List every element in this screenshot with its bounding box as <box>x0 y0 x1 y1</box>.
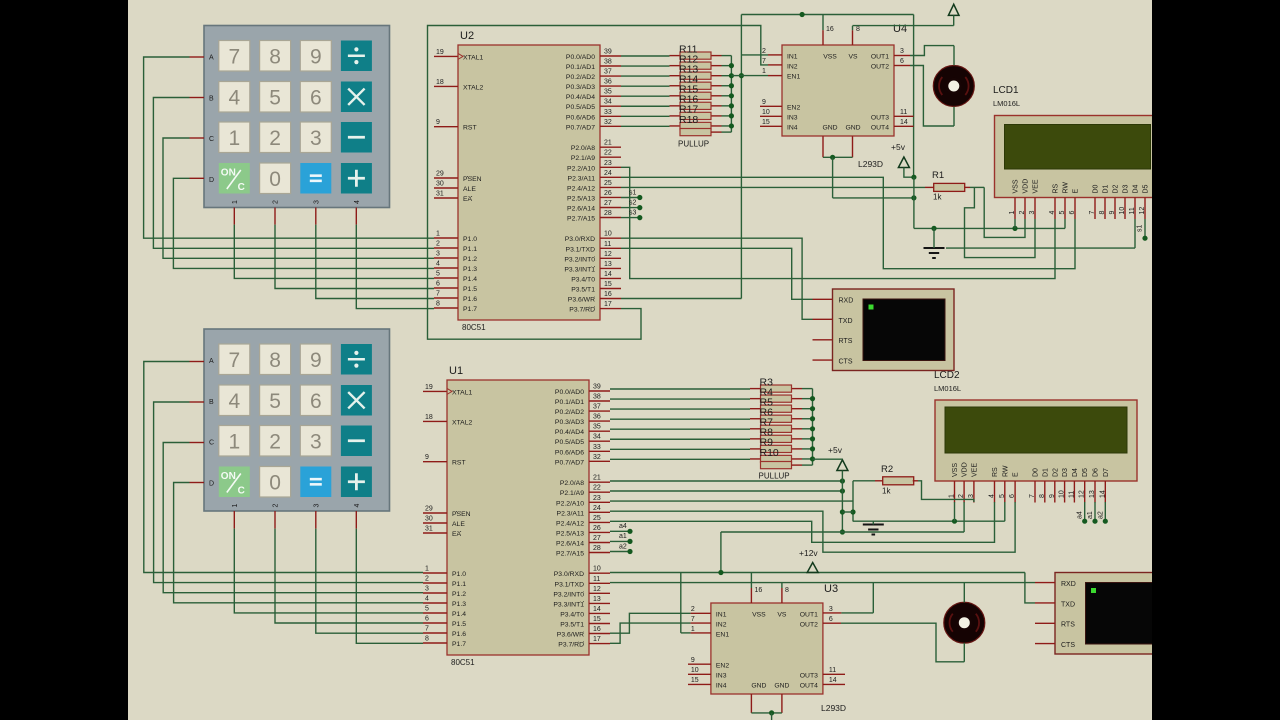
keypad KP2 button 0 <box>260 467 291 498</box>
resistor R17 <box>670 104 722 120</box>
U2 pin 12 P3.2/INT0 stub <box>564 251 621 263</box>
svg-text:39: 39 <box>604 49 612 56</box>
motor driver U4 L293D body <box>782 45 894 136</box>
svg-text:9: 9 <box>310 45 322 68</box>
svg-text:P1.1: P1.1 <box>463 246 477 253</box>
wire U2 P0.0 to resistor R11 <box>621 55 670 57</box>
svg-text:XTAL1: XTAL1 <box>463 54 483 61</box>
U1 pin 5 P1.4 stub <box>423 606 466 619</box>
svg-text:2: 2 <box>691 606 695 613</box>
resistor R13 <box>670 64 722 80</box>
U1 pin 26 P2.5/A13 stub <box>556 525 610 538</box>
svg-text:1: 1 <box>232 200 239 204</box>
wire keypad1 column 3 to U2 P1.6 <box>316 208 434 299</box>
U3 pin 3 OUT1 label <box>800 606 833 619</box>
U1 pin 30 ALE stub <box>423 516 465 529</box>
svg-text:IN3: IN3 <box>716 672 727 679</box>
LCD2 pin 14 D7 <box>1099 468 1110 503</box>
svg-text:RTS: RTS <box>839 338 853 345</box>
wire U3 left stub <box>688 673 711 675</box>
svg-text:GND: GND <box>822 125 837 132</box>
svg-text:P1.2: P1.2 <box>463 256 477 263</box>
svg-text:6: 6 <box>310 390 322 413</box>
wire R2 left vertical <box>842 481 882 521</box>
svg-text:4: 4 <box>436 261 440 268</box>
U4 pin 10 IN3 label <box>762 109 798 122</box>
svg-text:+5v: +5v <box>828 445 843 455</box>
svg-text:IN1: IN1 <box>787 54 798 61</box>
U4 pin 1 EN1 label <box>762 68 800 81</box>
svg-text:P3.7/RD: P3.7/RD <box>569 307 595 314</box>
U1 pin 9 RST stub <box>423 454 466 467</box>
svg-text:P2.5/A13: P2.5/A13 <box>556 530 584 537</box>
resistor pack common element <box>761 462 813 469</box>
wire +5v2 stem <box>840 471 845 535</box>
resistor pack common junction wire <box>722 56 735 133</box>
LCD2 screen <box>945 407 1127 453</box>
svg-text:14: 14 <box>593 606 601 613</box>
svg-text:D0: D0 <box>1093 184 1100 193</box>
LCD1 pin 8 D1 <box>1099 184 1110 219</box>
VT2 screen <box>1086 583 1167 645</box>
LCD display LCD2 LM016L body <box>935 400 1137 481</box>
svg-text:P1.1: P1.1 <box>452 581 466 588</box>
U2 pin 30 ALE stub <box>434 181 476 194</box>
wire keypad1 column 2 to U2 P1.5 <box>275 208 434 289</box>
svg-text:EN2: EN2 <box>716 662 729 669</box>
svg-text:D2: D2 <box>1113 184 1120 193</box>
svg-text:CTS: CTS <box>1061 642 1075 649</box>
keypad KP1 ON/C button <box>219 163 250 194</box>
wire +12v line to LCD2 VDD <box>721 502 964 573</box>
U1 pin 34 P0.5/AD5 stub <box>555 434 610 447</box>
svg-text:IN2: IN2 <box>716 622 727 629</box>
LCD2 pin 3 VEE <box>968 463 979 503</box>
wire U1 P2.1/A9 to +5v rail <box>610 488 845 493</box>
U2 pin 19 XTAL1 stub <box>434 49 483 62</box>
svg-text:32: 32 <box>593 454 601 461</box>
wire U2 P3.7/RD loop to U4 IN2 <box>428 26 783 340</box>
svg-text:P0.4/AD4: P0.4/AD4 <box>555 429 584 436</box>
svg-text:D4: D4 <box>1133 184 1140 193</box>
wire U2 P3.6/WR to U4 EN1 and +5V top rail <box>621 15 782 299</box>
svg-text:P0.6/AD6: P0.6/AD6 <box>555 449 584 456</box>
VT1 screen <box>863 299 945 361</box>
svg-text:LCD2: LCD2 <box>934 370 960 381</box>
resistor pack common element <box>680 129 731 136</box>
U2 pin 38 P0.1/AD1 stub <box>566 59 621 72</box>
svg-text:19: 19 <box>436 49 444 56</box>
motor MOTOR2 <box>944 602 985 643</box>
U3 pin 9 EN2 label <box>691 657 729 670</box>
wire U1 P2.0/A8 to +5v rail <box>610 478 845 483</box>
svg-text:1: 1 <box>1009 211 1016 215</box>
LCD2 pin 13 D6 <box>1089 468 1100 503</box>
svg-text:15: 15 <box>604 281 612 288</box>
svg-text:P2.5/A13: P2.5/A13 <box>567 195 595 202</box>
U2 pin 8 P1.7 stub <box>434 301 477 314</box>
wire U4 VS riser <box>853 26 954 45</box>
svg-text:18: 18 <box>425 414 433 421</box>
wire keypad2 row A to U1 P1.0 <box>144 362 423 573</box>
power symbol +5v <box>891 142 909 168</box>
svg-text:IN3: IN3 <box>787 114 798 121</box>
wire U2 P0.7 to resistor R18 <box>621 125 670 127</box>
svg-text:a1: a1 <box>1087 511 1094 519</box>
svg-text:LM016L: LM016L <box>993 99 1020 108</box>
svg-text:a2: a2 <box>1097 511 1104 519</box>
svg-text:5: 5 <box>436 271 440 278</box>
wire U1 P2.4/A12 to LCD2 RS <box>610 502 995 542</box>
wire ground2 stem <box>872 521 874 524</box>
svg-text:27: 27 <box>593 535 601 542</box>
U1 pin 10 P3.0/RXD stub <box>554 566 610 579</box>
svg-text:VDD: VDD <box>962 462 969 477</box>
svg-text:7: 7 <box>762 58 766 65</box>
U1 pin 24 P2.3/A11 stub <box>557 505 610 518</box>
U3 pin 15 IN4 label <box>691 677 727 690</box>
svg-text:3: 3 <box>1029 211 1036 215</box>
U2 pin 17 P3.7/RD stub <box>569 301 621 314</box>
svg-text:P2.3/A11: P2.3/A11 <box>568 175 596 182</box>
svg-text:7: 7 <box>228 349 240 372</box>
svg-text:P3.4/T0: P3.4/T0 <box>571 276 595 283</box>
U4 pin 15 IN4 label <box>762 119 798 132</box>
U2 pin 37 P0.2/AD2 stub <box>566 69 621 82</box>
svg-text:31: 31 <box>436 191 444 198</box>
node a2 at U1 pin 28 <box>610 543 633 554</box>
resistor R8 <box>750 427 802 443</box>
U1 pin 36 P0.3/AD3 stub <box>555 414 610 427</box>
LCD1 pin 12 D5 <box>1139 184 1150 219</box>
resistor R10 <box>750 447 802 463</box>
keypad KP1 button 2 <box>260 122 291 153</box>
svg-text:GND: GND <box>751 683 766 690</box>
svg-text:VDD: VDD <box>1023 179 1030 194</box>
svg-text:s1: s1 <box>1137 225 1144 233</box>
svg-text:29: 29 <box>425 506 433 513</box>
svg-text:2: 2 <box>436 241 440 248</box>
svg-text:4: 4 <box>354 200 361 204</box>
resistor R11 <box>670 43 722 59</box>
wire U3 VSS riser <box>751 573 762 604</box>
svg-text:17: 17 <box>593 636 601 643</box>
U4 VSS VS GND GND labels <box>822 54 860 132</box>
wire U4 left stub <box>760 115 782 117</box>
svg-text:OUT3: OUT3 <box>800 672 818 679</box>
svg-text:9: 9 <box>425 454 429 461</box>
LCD2 pin 4 RS <box>989 467 1000 503</box>
svg-text:R2: R2 <box>881 464 893 475</box>
svg-text:XTAL2: XTAL2 <box>452 419 472 426</box>
node a2 at LCD2 pin 14 <box>1097 502 1108 524</box>
svg-text:P3.5/T1: P3.5/T1 <box>571 287 595 294</box>
keypad KP1 body <box>204 26 390 208</box>
svg-text:U3: U3 <box>824 583 838 595</box>
svg-text:32: 32 <box>604 119 612 126</box>
wire U1 P3.6/WR to U3 IN1 <box>610 613 711 633</box>
wire U4 left stub <box>760 125 782 127</box>
svg-text:3: 3 <box>310 127 322 150</box>
svg-text:5: 5 <box>425 606 429 613</box>
svg-text:10: 10 <box>691 667 699 674</box>
keypad KP1 button 9 <box>300 41 331 72</box>
wire U3 OUT1 riser <box>823 583 873 613</box>
svg-text:RS: RS <box>992 467 999 477</box>
svg-text:6: 6 <box>1009 494 1016 498</box>
svg-text:OUT2: OUT2 <box>800 622 818 629</box>
svg-text:8: 8 <box>856 26 860 33</box>
keypad KP1 button 1 <box>219 122 250 153</box>
microcontroller U1 80C51 body <box>447 380 589 655</box>
svg-text:XTAL1: XTAL1 <box>452 389 472 396</box>
U1 pin 3 P1.2 stub <box>423 586 466 599</box>
node s2 at U2 pin 27 <box>621 199 642 210</box>
svg-text:ALE: ALE <box>452 521 465 528</box>
svg-text:36: 36 <box>593 414 601 421</box>
svg-text:10: 10 <box>762 109 770 116</box>
svg-text:OUT4: OUT4 <box>800 682 818 689</box>
svg-text:80C51: 80C51 <box>451 658 475 667</box>
svg-text:VS: VS <box>848 54 858 61</box>
svg-text:P1.0: P1.0 <box>452 571 466 578</box>
U4 pin 7 IN2 label <box>762 58 798 71</box>
svg-text:R1: R1 <box>932 170 944 181</box>
keypad KP1 operator button row 0 <box>341 41 372 72</box>
wire R1 right to LCD1 VDD and VEE <box>965 187 1036 257</box>
wire R2 right to LCD2 VEE <box>913 481 974 502</box>
svg-text:P3.5/T1: P3.5/T1 <box>560 622 584 629</box>
U1 pin 6 P1.5 stub <box>423 616 466 629</box>
U2 pin 23 P2.2/A10 stub <box>567 160 621 173</box>
svg-text:11: 11 <box>829 667 836 674</box>
wire U3 left stub <box>688 663 711 665</box>
svg-text:P0.3/AD3: P0.3/AD3 <box>555 419 584 426</box>
keypad KP2 button 6 <box>300 385 331 416</box>
LCD2 pin 9 D2 <box>1049 468 1060 503</box>
U2 pin 39 P0.0/AD0 stub <box>566 49 621 62</box>
svg-text:28: 28 <box>593 545 601 552</box>
svg-text:B: B <box>209 96 214 103</box>
wire U2 P3.0/RXD to VT1 TXD <box>621 238 833 319</box>
U1 pin 22 P2.1/A9 stub <box>560 485 610 498</box>
U1 pin 8 P1.7 stub <box>423 636 466 649</box>
svg-text:6: 6 <box>1069 211 1076 215</box>
wire U4 OUT3 stub <box>894 115 914 117</box>
svg-text:IN1: IN1 <box>716 612 727 619</box>
wire VT2 RTS stub <box>1035 622 1055 624</box>
svg-text:P0.7/AD7: P0.7/AD7 <box>555 459 584 466</box>
keypad KP1 operator button row 1 <box>341 82 372 113</box>
svg-text:26: 26 <box>593 525 601 532</box>
U2 pin 1 P1.0 stub <box>434 231 477 244</box>
svg-text:P0.3/AD3: P0.3/AD3 <box>566 84 595 91</box>
wire U2 P2.4/A12 to R1 left <box>621 186 934 188</box>
U2 pin 13 P3.3/INT1 stub <box>564 261 621 274</box>
LCD1 pin 9 D2 <box>1109 184 1120 219</box>
resistor R16 <box>670 94 722 110</box>
svg-text:OUT2: OUT2 <box>871 64 889 71</box>
wire U1 P0.6 to resistor R9 <box>610 448 750 450</box>
wire keypad2 row B to U1 P1.1 <box>154 402 423 583</box>
svg-text:D2: D2 <box>1052 468 1059 477</box>
svg-text:31: 31 <box>425 526 433 533</box>
svg-text:P2.2/A10: P2.2/A10 <box>556 500 584 507</box>
U1 pin 7 P1.6 stub <box>423 626 466 639</box>
svg-text:P2.7/A15: P2.7/A15 <box>567 216 595 223</box>
U3 pin 7 IN2 label <box>691 616 727 629</box>
U4 pin 14 OUT4 label <box>871 119 908 132</box>
resistor R5 <box>750 397 802 413</box>
svg-text:XTAL2: XTAL2 <box>463 84 483 91</box>
svg-text:27: 27 <box>604 200 612 207</box>
svg-text:RXD: RXD <box>1061 581 1076 588</box>
node s1 at LCD1 D5 <box>1137 219 1148 241</box>
svg-text:6: 6 <box>436 281 440 288</box>
svg-text:16: 16 <box>755 587 763 594</box>
wire U1 P0.4 to resistor R7 <box>610 428 750 430</box>
svg-text:L293D: L293D <box>821 703 846 713</box>
U2 pin 7 P1.6 stub <box>434 291 477 304</box>
U2 pin 35 P0.4/AD4 stub <box>566 89 621 102</box>
svg-text:1k: 1k <box>933 193 942 202</box>
U1 pin 17 P3.7/RD stub <box>558 636 610 649</box>
svg-text:5: 5 <box>999 494 1006 498</box>
svg-text:3: 3 <box>313 503 320 507</box>
U1 pin 2 P1.1 stub <box>423 576 466 589</box>
U1 pin 29 PSEN stub <box>423 506 471 519</box>
svg-text:VSS: VSS <box>952 463 959 477</box>
svg-text:35: 35 <box>593 424 601 431</box>
svg-text:9: 9 <box>436 119 440 126</box>
svg-text:P1.4: P1.4 <box>463 276 477 283</box>
svg-text:OUT4: OUT4 <box>871 124 889 131</box>
resistor R7 <box>750 417 802 433</box>
svg-text:a2: a2 <box>619 543 627 550</box>
svg-text:P3.3/INT1: P3.3/INT1 <box>564 266 595 273</box>
svg-text:11: 11 <box>1068 491 1075 498</box>
svg-text:P0.1/AD1: P0.1/AD1 <box>566 64 595 71</box>
keypad KP1 equals button <box>300 163 331 194</box>
svg-text:16: 16 <box>604 291 612 298</box>
wire U1 P0.3 to resistor R6 <box>610 418 750 420</box>
keypad KP2 button 5 <box>260 385 291 416</box>
svg-text:VEE: VEE <box>1033 179 1040 193</box>
svg-text:P1.7: P1.7 <box>452 641 466 648</box>
U1 pin 12 P3.2/INT0 stub <box>553 586 610 599</box>
LCD2 pin 11 D4 <box>1068 468 1079 503</box>
power symbol +5v <box>828 445 848 471</box>
svg-text:L293D: L293D <box>858 159 883 169</box>
U2 pin 5 P1.4 stub <box>434 271 477 284</box>
keypad KP2 button 7 <box>219 344 250 375</box>
node a1 at LCD2 pin 13 <box>1087 502 1098 524</box>
wire U3 VS riser <box>782 583 789 603</box>
svg-text:39: 39 <box>593 384 601 391</box>
svg-text:10: 10 <box>593 566 601 573</box>
U3 pin 14 OUT4 label <box>800 677 837 690</box>
U1 pin 16 P3.6/WR stub <box>557 626 610 639</box>
wire U1 P0.2 to resistor R5 <box>610 408 750 410</box>
svg-text:D1: D1 <box>1103 184 1110 193</box>
svg-text:7: 7 <box>691 616 695 623</box>
wire U2 P3.1/TXD to VT1 RXD <box>621 248 833 299</box>
svg-text:U4: U4 <box>893 23 907 35</box>
svg-text:28: 28 <box>604 210 612 217</box>
wire +5v to R1 rail <box>904 168 1065 231</box>
U1 pin 4 P1.3 stub <box>423 596 466 609</box>
LCD2 pin 5 RW <box>999 465 1010 502</box>
svg-text:P3.2/INT0: P3.2/INT0 <box>564 256 595 263</box>
wire U2 P0.2 to resistor R13 <box>621 75 670 77</box>
node a4 at LCD2 pin 12 <box>1077 502 1088 524</box>
keypad KP1 button 7 <box>219 41 250 72</box>
U2 pin 25 P2.4/A12 stub <box>567 180 621 193</box>
svg-text:4: 4 <box>1049 211 1056 215</box>
wire VT1 RTS stub <box>813 339 833 341</box>
svg-text:0: 0 <box>269 471 281 494</box>
wire U3 OUT2 to motor2 <box>823 623 964 662</box>
svg-text:10: 10 <box>604 231 612 238</box>
wire U1 P0.0 to resistor R3 <box>610 388 750 390</box>
wire VT1 CTS stub <box>813 359 833 361</box>
LCD2 pin 8 D1 <box>1039 468 1050 503</box>
wire keypad2 column 2 to U1 P1.5 <box>275 511 423 623</box>
wire U1 P3.7/RD to U3 IN2 <box>610 623 711 643</box>
svg-text:D5: D5 <box>1082 468 1089 477</box>
svg-text:14: 14 <box>900 119 908 126</box>
keypad KP2 operator button row 3 <box>341 467 372 498</box>
LCD1 pin 4 RS <box>1049 183 1060 219</box>
svg-text:P0.5/AD5: P0.5/AD5 <box>566 104 595 111</box>
svg-text:P1.5: P1.5 <box>463 286 477 293</box>
keypad KP1 button 4 <box>219 82 250 113</box>
wire R10 common to +5v2 <box>813 458 843 460</box>
U3 pin 2 IN1 label <box>691 606 727 619</box>
keypad KP2 button 2 <box>260 426 291 457</box>
U2 pin 32 P0.7/AD7 stub <box>566 119 621 132</box>
U1 pin 39 P0.0/AD0 stub <box>555 384 610 397</box>
svg-text:P2.1/A9: P2.1/A9 <box>560 490 584 497</box>
svg-text:11: 11 <box>900 109 907 116</box>
svg-text:P1.6: P1.6 <box>452 631 466 638</box>
svg-text:a1: a1 <box>619 533 627 540</box>
svg-text:RST: RST <box>463 125 477 132</box>
svg-text:15: 15 <box>593 616 601 623</box>
wire U1 P2.2/A10 to R2 left <box>610 500 853 502</box>
keypad KP2 body <box>204 329 390 511</box>
wire U1 P0.1 to resistor R4 <box>610 398 750 400</box>
svg-text:ON: ON <box>221 168 236 179</box>
svg-text:P2.4/A12: P2.4/A12 <box>567 185 595 192</box>
svg-text:14: 14 <box>604 271 612 278</box>
wire U2 P2.2/A10 to LCD1 RS <box>621 167 1055 278</box>
svg-text:+5v: +5v <box>891 142 906 152</box>
svg-text:30: 30 <box>425 516 433 523</box>
svg-text:U1: U1 <box>449 365 463 377</box>
resistor R9 <box>750 437 802 453</box>
keypad KP2 button 8 <box>260 344 291 375</box>
svg-text:7: 7 <box>1029 494 1036 498</box>
svg-text:30: 30 <box>436 181 444 188</box>
svg-text:19: 19 <box>425 384 433 391</box>
svg-text:9: 9 <box>762 99 766 106</box>
svg-text:IN4: IN4 <box>716 682 727 689</box>
keypad KP2 operator button row 1 <box>341 385 372 416</box>
microcontroller U2 80C51 body <box>458 45 600 320</box>
svg-text:8: 8 <box>269 349 281 372</box>
svg-text:LCD1: LCD1 <box>993 85 1019 96</box>
